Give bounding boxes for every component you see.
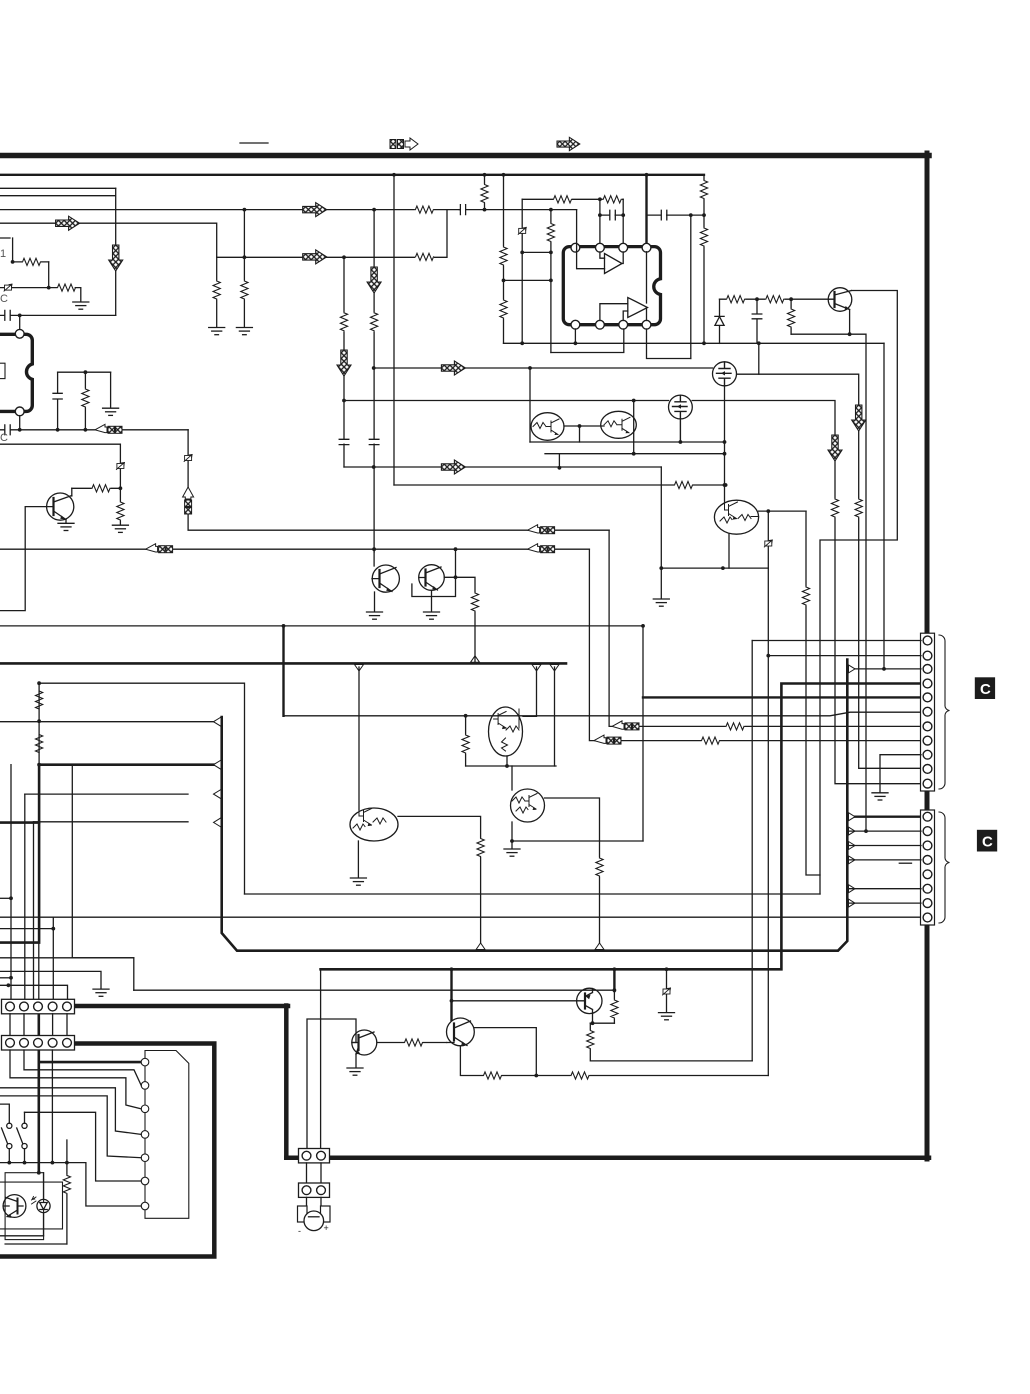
junction dot	[119, 486, 123, 490]
wire: bold connector C1 pin5 feed y697	[643, 696, 921, 698]
resistor	[610, 1000, 619, 1019]
junction dot	[766, 654, 770, 658]
Q7 ground	[374, 592, 376, 612]
wire: vertical x39 thin continuation to connector	[38, 943, 40, 1000]
row1-row2 links	[10, 1014, 67, 1036]
IC U2 thick outline with right notch	[563, 247, 660, 325]
Q8 ground	[431, 591, 433, 612]
LED D2	[37, 1173, 50, 1236]
row2 rect	[2, 1036, 75, 1051]
resistor x480 to bus950	[480, 839, 482, 946]
digital transistor Q5 oval	[601, 411, 637, 438]
vertical x704 with two resistors from rail end	[703, 175, 705, 344]
motor leads	[307, 1197, 322, 1207]
digital transistor Q11 oval	[511, 789, 545, 822]
resistor	[404, 1038, 423, 1047]
wire y400 from x344 through M2 to x835	[344, 401, 921, 784]
junction dot	[534, 1074, 538, 1078]
transistor T2	[447, 1018, 475, 1046]
wire y549 long with arrows	[0, 548, 589, 550]
op-amp B inside U2	[628, 298, 648, 318]
vertical x344 chain	[343, 257, 345, 467]
ground	[350, 878, 366, 885]
trimmer	[116, 463, 124, 470]
switch S1	[0, 1104, 12, 1163]
vertical x503 with two resistors down to wire y343	[503, 175, 505, 343]
junction dot	[591, 1021, 595, 1025]
junction dot	[721, 566, 725, 570]
symbol group	[610, 210, 616, 220]
arrowheads on bus x847	[849, 813, 856, 821]
resistor x791 to wire y334	[790, 299, 792, 334]
drop x530 into oval Q4	[529, 368, 531, 442]
IC1 pin top wire	[19, 315, 21, 330]
frame: left thick edge of bottom block	[284, 1006, 289, 1158]
left arrow boxes on wire y530	[528, 525, 555, 534]
op-amp A output to pin3	[622, 252, 623, 264]
wire y188 upper	[0, 187, 116, 189]
junction dot	[848, 332, 852, 336]
resistor	[471, 593, 480, 612]
symbol group	[369, 439, 379, 444]
svg-text:C: C	[0, 293, 8, 305]
hatched arrow on wire y209	[303, 203, 327, 217]
svg-text:-: -	[298, 1226, 301, 1236]
transistor Q2	[828, 288, 852, 312]
junction dot	[372, 547, 376, 551]
ground	[103, 408, 119, 415]
phototransistor PT1	[3, 1195, 26, 1218]
label dash at top	[240, 142, 268, 144]
wire to c1 pin2	[768, 655, 921, 657]
ground	[872, 793, 888, 800]
opto box B	[0, 1182, 63, 1229]
junction dot	[65, 1161, 69, 1165]
wire: thick wire from connector row1 to bottom block edge	[74, 1004, 288, 1009]
Q8 emitter loop	[412, 577, 456, 597]
svg-text:1: 1	[0, 248, 6, 260]
wire y453	[545, 453, 725, 455]
link x559	[558, 454, 560, 468]
junction dot	[578, 424, 582, 428]
wire y568	[661, 567, 768, 569]
wire y893	[245, 893, 821, 895]
LED light arrows	[32, 1197, 37, 1205]
motor inner dash	[309, 1216, 320, 1218]
wire y990	[134, 989, 615, 991]
junction dot	[372, 465, 376, 469]
motor connector rect B	[299, 1183, 330, 1197]
capacitor vertical x57	[57, 372, 59, 430]
resistor	[81, 389, 90, 408]
wire y985 stub to pin5	[0, 985, 68, 1000]
resistor	[212, 281, 221, 300]
transistor Q1 base wire to left edge	[0, 507, 47, 611]
wire to c2 pin3	[847, 845, 921, 847]
resistor	[483, 1071, 502, 1080]
arrow with boxes	[95, 424, 122, 433]
resistor x39 lower	[35, 734, 44, 753]
Q11 bottom to ground junction	[511, 822, 513, 841]
connector C2 brace	[939, 812, 950, 923]
op-amp B output to pin4	[646, 252, 648, 321]
hatched arrow	[367, 267, 381, 293]
wire: bold vertical through connector rows to block	[37, 1008, 40, 1062]
vertical x374 chain	[373, 210, 375, 552]
bold feed end dot	[37, 1171, 41, 1175]
wire y223 from edge to corner x216	[0, 223, 217, 257]
ground x80	[73, 302, 89, 309]
wire	[214, 818, 222, 827]
wire to c1 pin1	[752, 640, 921, 642]
resistor y287	[57, 283, 76, 292]
vertical x661 from y467 to ground	[660, 467, 662, 599]
connector row1 rect	[2, 999, 75, 1014]
MOSFET M1	[713, 362, 737, 386]
wire: thick wire y765 from x39 to bus arrow	[39, 763, 215, 766]
fan wire pin1 to c3	[10, 1050, 141, 1109]
block circles	[141, 1058, 149, 1066]
symbol group	[5, 425, 11, 435]
stub x579	[579, 426, 581, 442]
vertical x643 to wire y841	[642, 626, 644, 841]
junction dot	[882, 667, 886, 671]
wire y442	[530, 441, 725, 443]
wire y822 thin	[34, 821, 189, 823]
wire: bold connector2 pin1 feed	[847, 816, 921, 818]
ground under x244	[236, 328, 252, 335]
resistor	[370, 312, 379, 331]
wire y343 under IC2	[504, 342, 885, 344]
transistor T3	[577, 988, 602, 1013]
wire y374 mosfet out to x858	[737, 374, 921, 768]
wire to c2 pin2	[847, 830, 921, 832]
junction dot	[632, 452, 636, 456]
hatched arrow	[441, 460, 465, 474]
wire y195 to corner x115 down to wire y315	[0, 188, 116, 315]
vertical x515 to oval Q10	[523, 667, 537, 716]
transistor Q1 collector riser	[71, 488, 73, 496]
resistor	[700, 228, 709, 247]
wire y1075 emitter chain to x768	[460, 1046, 768, 1076]
resistor x39 upper	[35, 691, 44, 710]
resistor	[586, 1030, 595, 1049]
hatched arrow	[337, 350, 351, 376]
resistor	[765, 295, 784, 304]
wire y287 with trimmer	[0, 287, 58, 289]
wire: bold IC2 supply drop x646	[645, 175, 647, 248]
resistor	[787, 309, 796, 328]
Q9 ground	[357, 841, 359, 878]
resistor	[700, 180, 709, 199]
IC U1 thick outline with notch	[0, 334, 32, 411]
wire y358 pin4b jog	[647, 329, 691, 359]
pin1b drop	[574, 329, 576, 343]
bus: thick horizontal bus y663	[0, 662, 566, 665]
transistor Q8	[419, 565, 445, 591]
connector label boxes 00 with arrow at top	[390, 138, 418, 150]
op-amp A inside U2	[605, 254, 623, 274]
resistor	[499, 300, 508, 319]
resistor	[595, 858, 604, 877]
switch S2	[17, 1112, 27, 1162]
capacitor plates on y315	[5, 310, 11, 320]
wire y766	[466, 765, 556, 767]
resistor	[461, 735, 470, 754]
connector C2 pin circles	[923, 812, 932, 821]
transistor Q1 emitter ground	[65, 520, 67, 523]
junction dots wire y209	[243, 208, 247, 212]
Q7 collector from wire y549	[373, 549, 375, 566]
digital transistor Q9 oval	[350, 808, 398, 841]
ground	[504, 849, 520, 856]
resistor	[726, 722, 745, 731]
junction dot	[724, 483, 728, 487]
symbol group	[339, 439, 349, 444]
wire y917	[0, 916, 921, 918]
connector C2 vertical strip	[921, 810, 935, 925]
resistor	[116, 502, 125, 521]
bus950 tap marks	[476, 943, 485, 950]
trimmer drop x666 with ground	[666, 969, 668, 1012]
Q6 bottom drop	[728, 534, 730, 568]
ground	[93, 989, 109, 996]
resistor x590 to wire y1061	[590, 1023, 752, 1061]
junction dot	[450, 999, 454, 1003]
junction dot	[755, 297, 759, 301]
opto box A	[5, 1173, 44, 1240]
T1 collector resistor to T2 base	[377, 1042, 447, 1044]
resistor on x858	[854, 499, 863, 518]
junction dot	[520, 251, 524, 255]
bus: thick bus y970 rising to connector C1 pin4	[321, 684, 921, 970]
resistor	[480, 184, 489, 203]
vertical x758 link	[758, 343, 760, 374]
frame: top thick border bar	[0, 153, 929, 159]
bus970 dots	[450, 967, 454, 971]
cut resistor at left edge block	[0, 238, 13, 262]
wire y215 capacitor link pin2-pin3	[600, 214, 623, 216]
junction dot	[689, 213, 693, 217]
wire to c2 pin7	[847, 902, 921, 904]
resistor vertical x120 to ground	[119, 502, 121, 524]
motor M1 bracket right tab	[321, 1206, 331, 1222]
resistor	[63, 1175, 72, 1194]
junction dot	[864, 829, 868, 833]
vertical x633	[633, 401, 635, 454]
wire y299 resistor chain to Q2 base	[720, 298, 829, 300]
bus: thick vertical x222 with 45-degree bend into bus y950	[222, 660, 848, 951]
fan wire left edge to c4	[0, 1088, 141, 1135]
bus663 tap arrowheads	[355, 665, 364, 672]
wire: bold drop from bus970 to T3 resistor	[613, 969, 615, 991]
junction dot	[502, 279, 506, 283]
dash mark near c2 pin4	[899, 862, 911, 864]
capacitor on wire y209	[459, 205, 465, 215]
wire to c2 pin4	[847, 859, 921, 861]
resistor drop x465 from wire y713	[465, 716, 467, 766]
ground	[367, 612, 383, 619]
wire y444 to trimmer drop x120	[0, 444, 120, 502]
MOSFET M2	[669, 395, 693, 442]
vertical x690 down to wire y358	[690, 215, 692, 358]
junction dot	[9, 896, 13, 900]
wire y315 with capacitor	[0, 314, 116, 316]
ground	[424, 612, 440, 619]
resistor vertical x85	[84, 372, 86, 430]
wire y215 capacitor link pin4 to x690	[647, 214, 705, 216]
resistor bottom wire	[5, 1243, 67, 1245]
junction dot	[84, 370, 88, 374]
frame: lower-left block thick outline	[0, 1044, 214, 1257]
Q11 top link	[511, 766, 513, 790]
hatched arrow on wire y223	[56, 216, 80, 230]
bus970 left drop to motor connector	[320, 969, 322, 1148]
wire y1162 to c7	[0, 1163, 141, 1206]
wire y368 from x374 to corner x858	[374, 367, 713, 369]
resistor	[22, 258, 41, 267]
transistor Q1	[47, 493, 74, 520]
wire y549 drop x589 to connector c8 wire	[589, 549, 921, 740]
jog x806 x820 at y875	[806, 511, 820, 875]
svg-text:+: +	[324, 1223, 329, 1233]
symbol group	[53, 393, 62, 399]
ground x512	[511, 841, 513, 849]
T3 base wire y1000	[452, 1000, 578, 1002]
vertical x522 with trimmer	[521, 199, 523, 343]
vertical x53	[52, 917, 54, 1000]
T3 emitter bottom junction	[590, 1014, 614, 1024]
wire	[214, 717, 222, 726]
frame: right thick border	[925, 153, 930, 1159]
svg-text:C: C	[980, 681, 991, 698]
trimmer	[764, 540, 772, 547]
Q10 bottom to wire y766	[506, 756, 508, 766]
Q6 out wire y511	[759, 510, 806, 512]
resistor x66 photo load	[66, 1140, 68, 1244]
hatched down arrow on x115	[109, 245, 123, 271]
resistor	[240, 281, 249, 300]
resistor on x835	[831, 499, 840, 518]
junction dot	[372, 366, 376, 370]
junction dot	[598, 213, 602, 217]
wire y841	[512, 840, 643, 842]
ground	[58, 523, 74, 530]
junction dot	[613, 988, 617, 992]
wire y199 with two resistors over IC2	[522, 198, 623, 200]
T1 base feed from motor connector	[307, 1019, 356, 1148]
c1 pin9 ground link	[880, 755, 921, 793]
vertical x72	[72, 765, 134, 991]
down arrow on x835	[828, 435, 842, 461]
wire y429 with capacitor and arrow boxes	[0, 429, 188, 431]
junction dot	[51, 927, 55, 931]
LED bottom wire	[0, 1235, 44, 1237]
vertical x24 to connector	[24, 794, 26, 1000]
pin2 riser	[599, 199, 601, 243]
wire y794	[25, 793, 188, 795]
T2 feedback loop	[474, 1028, 536, 1076]
vertical x33 to connector	[33, 822, 35, 1000]
diode D1	[715, 299, 724, 343]
resistor	[674, 481, 693, 490]
pin3 riser	[622, 199, 624, 243]
svg-text:C: C	[982, 834, 993, 851]
trimmer	[518, 227, 526, 234]
wire to c2 pin6	[847, 888, 921, 890]
vertical x475 resistor	[456, 577, 476, 661]
transistor Q7	[372, 565, 399, 592]
IC U1 inner square	[0, 363, 5, 378]
wire between Q4 Q5	[564, 425, 604, 427]
wire y530 drop x609 to connector c7 wire	[609, 530, 921, 726]
wire y372 under IC	[58, 371, 111, 373]
wire y721 with bus arrow	[0, 721, 214, 723]
Q9 out wire y816	[398, 816, 481, 839]
ground x661	[653, 599, 669, 606]
Q2 collector wire y291 to x897	[820, 291, 897, 895]
connector C1 vertical strip	[921, 633, 935, 791]
junction dot	[510, 839, 514, 843]
resistor x599 to bus950	[599, 859, 601, 945]
vertical x556 to wire y766	[554, 667, 556, 766]
resistor	[726, 295, 745, 304]
connector C2 label box	[977, 830, 997, 852]
junction dot	[342, 399, 346, 403]
wire to c1 pin3	[847, 668, 921, 670]
connector C1 label box	[975, 677, 995, 699]
resistor drop x244	[243, 210, 245, 327]
ground	[347, 1068, 363, 1075]
arrow with boxes	[594, 735, 621, 744]
digital transistor Q6 oval	[714, 500, 758, 534]
wire y488 resistor to transistor	[72, 487, 121, 489]
switch S2 wire to c6	[25, 1112, 142, 1181]
junction dot	[18, 314, 22, 318]
fan wire left edge to c5	[0, 1096, 141, 1158]
wire drop x48	[48, 262, 50, 288]
vertical x359 to oval Q9	[358, 667, 360, 810]
trimmer	[663, 988, 671, 995]
IC U1 pin circles	[15, 329, 24, 338]
resistor	[701, 736, 720, 745]
junction dot	[505, 764, 509, 768]
stub y898	[0, 897, 11, 899]
resistor x614 from bold drop	[613, 991, 615, 1023]
IC U2 bottom pin circles	[571, 320, 580, 329]
resistor horizontal y261	[13, 261, 49, 263]
bus: power rail under top border	[0, 174, 704, 176]
wire: bold vertical into opto block	[37, 1062, 40, 1173]
resistor drop x216	[216, 257, 218, 327]
junction dot	[598, 197, 602, 201]
stub y977	[0, 977, 11, 979]
wire y713 from thick x283 to connector c6	[284, 712, 922, 716]
vertical x394 from rail to wire y485	[393, 175, 395, 485]
fan wire pin2 to c2	[24, 1050, 141, 1085]
junction dot	[549, 251, 553, 255]
down arrow on x858	[852, 405, 866, 431]
arrow with boxes	[528, 544, 555, 553]
connector C1 pin circles	[923, 636, 932, 645]
wire y485 from x394 with resistor	[394, 484, 726, 486]
symbol group	[661, 210, 667, 220]
resistor	[547, 223, 556, 242]
dots on rail y174	[392, 173, 396, 177]
junction dot	[723, 440, 727, 444]
hatched arrow at top centre	[557, 137, 580, 150]
resistor drop x484 from rail to wire y209	[484, 175, 486, 210]
